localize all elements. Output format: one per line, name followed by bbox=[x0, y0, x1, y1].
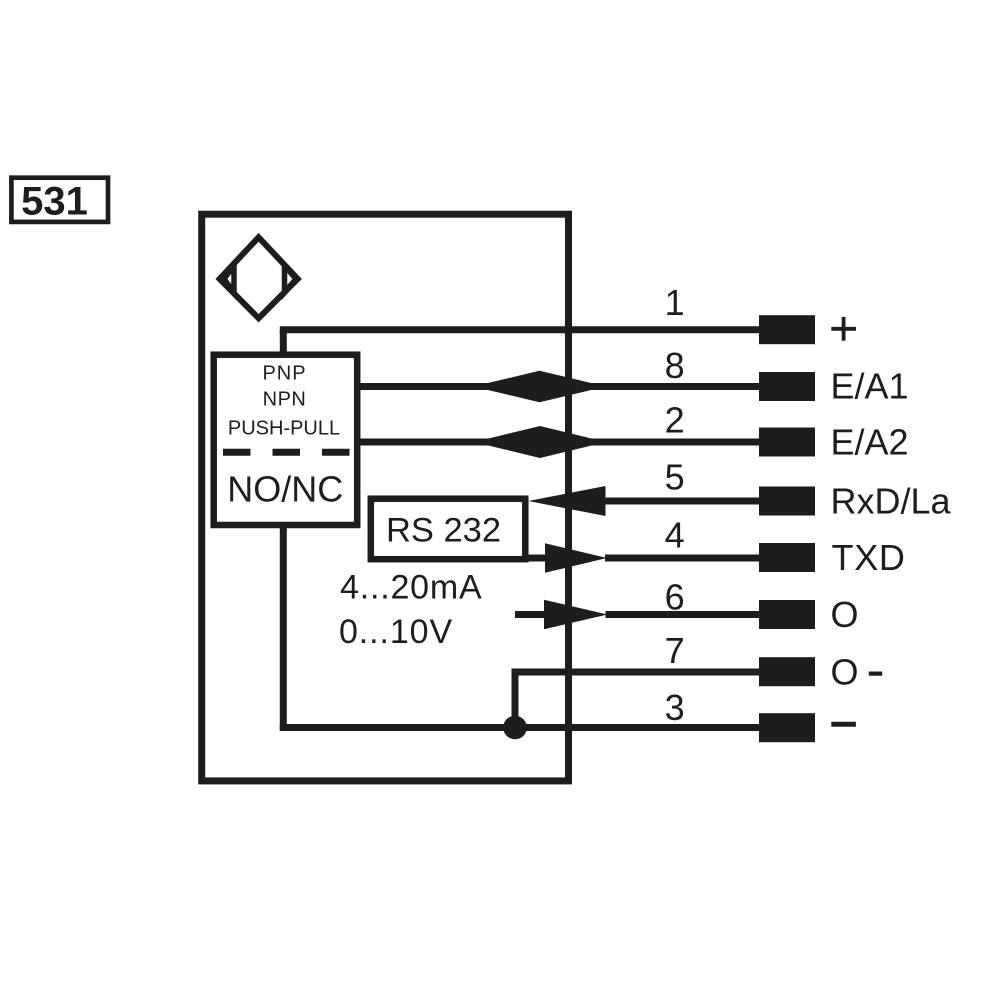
svg-text:RS 232: RS 232 bbox=[386, 512, 501, 550]
svg-text:7: 7 bbox=[665, 630, 685, 671]
svg-text:3: 3 bbox=[665, 687, 685, 728]
svg-text:6: 6 bbox=[665, 577, 685, 618]
svg-text:NPN: NPN bbox=[263, 389, 307, 411]
svg-text:E/A1: E/A1 bbox=[831, 366, 909, 407]
svg-text:TXD: TXD bbox=[832, 537, 906, 578]
svg-text:RxD/La: RxD/La bbox=[831, 481, 952, 522]
svg-text:8: 8 bbox=[665, 345, 685, 386]
svg-text:4...20mA: 4...20mA bbox=[340, 569, 482, 607]
svg-text:5: 5 bbox=[665, 457, 685, 498]
svg-text:PUSH-PULL: PUSH-PULL bbox=[228, 418, 340, 440]
svg-text:531: 531 bbox=[21, 180, 88, 224]
svg-text:2: 2 bbox=[665, 400, 685, 441]
svg-text:O: O bbox=[831, 594, 859, 635]
svg-text:4: 4 bbox=[665, 515, 685, 556]
svg-text:PNP: PNP bbox=[262, 363, 306, 385]
svg-text:NO/NC: NO/NC bbox=[227, 469, 343, 510]
svg-text:E/A2: E/A2 bbox=[831, 422, 909, 463]
svg-text:0...10V: 0...10V bbox=[339, 613, 453, 651]
svg-text:O: O bbox=[831, 652, 859, 693]
svg-text:1: 1 bbox=[665, 282, 685, 323]
